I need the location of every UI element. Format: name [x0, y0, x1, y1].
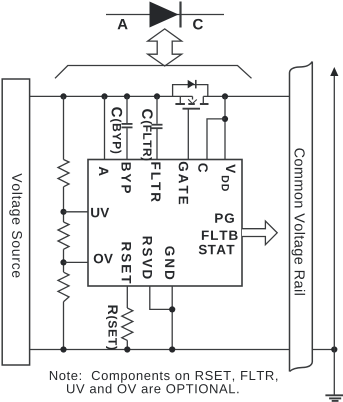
- node dot divider bottom: [60, 346, 66, 352]
- wire RSET pin: [126, 286, 128, 308]
- top wire left segment: [30, 95, 193, 97]
- label C(FLTR): [141, 109, 153, 160]
- MOSFET Q1 gate plate: [183, 108, 201, 110]
- diode D1 cathode bar: [179, 2, 181, 28]
- node RSVD/GND junction: [169, 306, 175, 312]
- pin label PG: [215, 213, 234, 223]
- node dot rail ground: [331, 346, 337, 352]
- brace bracket: [55, 66, 252, 79]
- pin label C: [198, 163, 208, 172]
- node dot CBYP tap: [124, 93, 130, 99]
- capacitor CBYP: [122, 124, 133, 128]
- bottom wire right segment: [312, 349, 334, 351]
- label Common Voltage Rail: [292, 148, 306, 295]
- pin label RSVD: [143, 237, 153, 279]
- wire UV pin: [64, 211, 89, 213]
- wire A pin: [104, 96, 106, 159]
- node UV junction: [60, 209, 66, 215]
- MOSFET Q1 body arrow: [188, 99, 197, 104]
- label Voltage Source: [9, 173, 22, 277]
- pin label A: [99, 167, 108, 176]
- MOSFET Q1 body diode loop: [173, 85, 208, 97]
- node dot divider tap: [60, 93, 66, 99]
- wire CFLTR to FLTR pin: [156, 129, 158, 160]
- Common Voltage Rail bus: [290, 62, 313, 372]
- output arrow PG/FLTB/STAT: [242, 221, 277, 245]
- wire GND pin: [171, 286, 173, 350]
- wire CBYP to BYP pin: [126, 128, 128, 159]
- wire OV pin: [64, 261, 89, 263]
- rail riser wire: [333, 74, 335, 395]
- pin label UV: [91, 208, 109, 217]
- rail riser arrowhead: [330, 67, 338, 76]
- node OV junction: [60, 259, 66, 265]
- bidirectional replace arrow: [148, 29, 182, 66]
- MOSFET Q1 drain bar: [200, 103, 209, 105]
- wire divider bottom: [63, 302, 65, 350]
- wire R2 to R3: [63, 249, 65, 272]
- MOSFET Q1 body diode: [188, 80, 195, 89]
- pin label GND: [165, 246, 175, 279]
- MOSFET Q1 drain stub: [202, 96, 204, 103]
- node dot CFLTR tap: [154, 93, 160, 99]
- resistor R3: [58, 272, 69, 302]
- wire C pin branch: [207, 119, 225, 160]
- wire VDD pin: [224, 96, 226, 159]
- ground: [325, 395, 343, 401]
- resistor RSET: [122, 308, 133, 340]
- bottom wire left segment: [30, 349, 290, 351]
- wire RSET bottom: [126, 340, 128, 349]
- node dot RSET bottom: [124, 346, 130, 352]
- node dot A pin tap: [101, 93, 107, 99]
- pin label FLTB: [202, 231, 238, 240]
- wire R1 to R2: [63, 187, 65, 222]
- pin label FLTR: [151, 162, 160, 201]
- note line 1: [50, 371, 277, 383]
- diode D1: [150, 2, 179, 28]
- wire RSVD pin: [150, 286, 172, 309]
- pin label RSET: [122, 242, 132, 283]
- pin label STAT: [199, 245, 235, 255]
- capacitor CFLTR: [152, 125, 163, 129]
- label C(BYP): [110, 107, 122, 153]
- wire gate to GATE pin: [187, 109, 189, 160]
- label R(SET): [106, 306, 118, 350]
- label C (diode cathode): [193, 19, 203, 30]
- resistor R1: [58, 160, 69, 187]
- note line 2: [67, 384, 238, 394]
- MOSFET Q1 source stub: [179, 96, 181, 103]
- label A (diode anode): [118, 19, 128, 29]
- wire CBYP top: [126, 96, 128, 123]
- pin label VDD: [222, 164, 236, 191]
- wire divider top: [63, 96, 65, 159]
- top wire right segment: [203, 95, 289, 97]
- MOSFET Q1 body bar: [188, 103, 195, 105]
- MOSFET Q1 source bar: [175, 103, 185, 105]
- wire CFLTR top: [156, 96, 158, 123]
- pin label BYP: [122, 163, 131, 193]
- node VDD/C branch: [222, 116, 228, 122]
- IC U1: [88, 160, 242, 287]
- resistor R2: [58, 222, 69, 249]
- node dot GND bottom: [169, 346, 175, 352]
- diode D1 wire: [106, 14, 224, 16]
- Voltage Source box: [2, 79, 29, 365]
- node dot VDD tap: [222, 93, 228, 99]
- MOSFET Q1 body diode cathode bar: [195, 80, 197, 89]
- MOSFET Q1 body arrow shaft: [192, 96, 194, 99]
- pin label GATE: [179, 162, 189, 204]
- pin label OV: [94, 254, 113, 264]
